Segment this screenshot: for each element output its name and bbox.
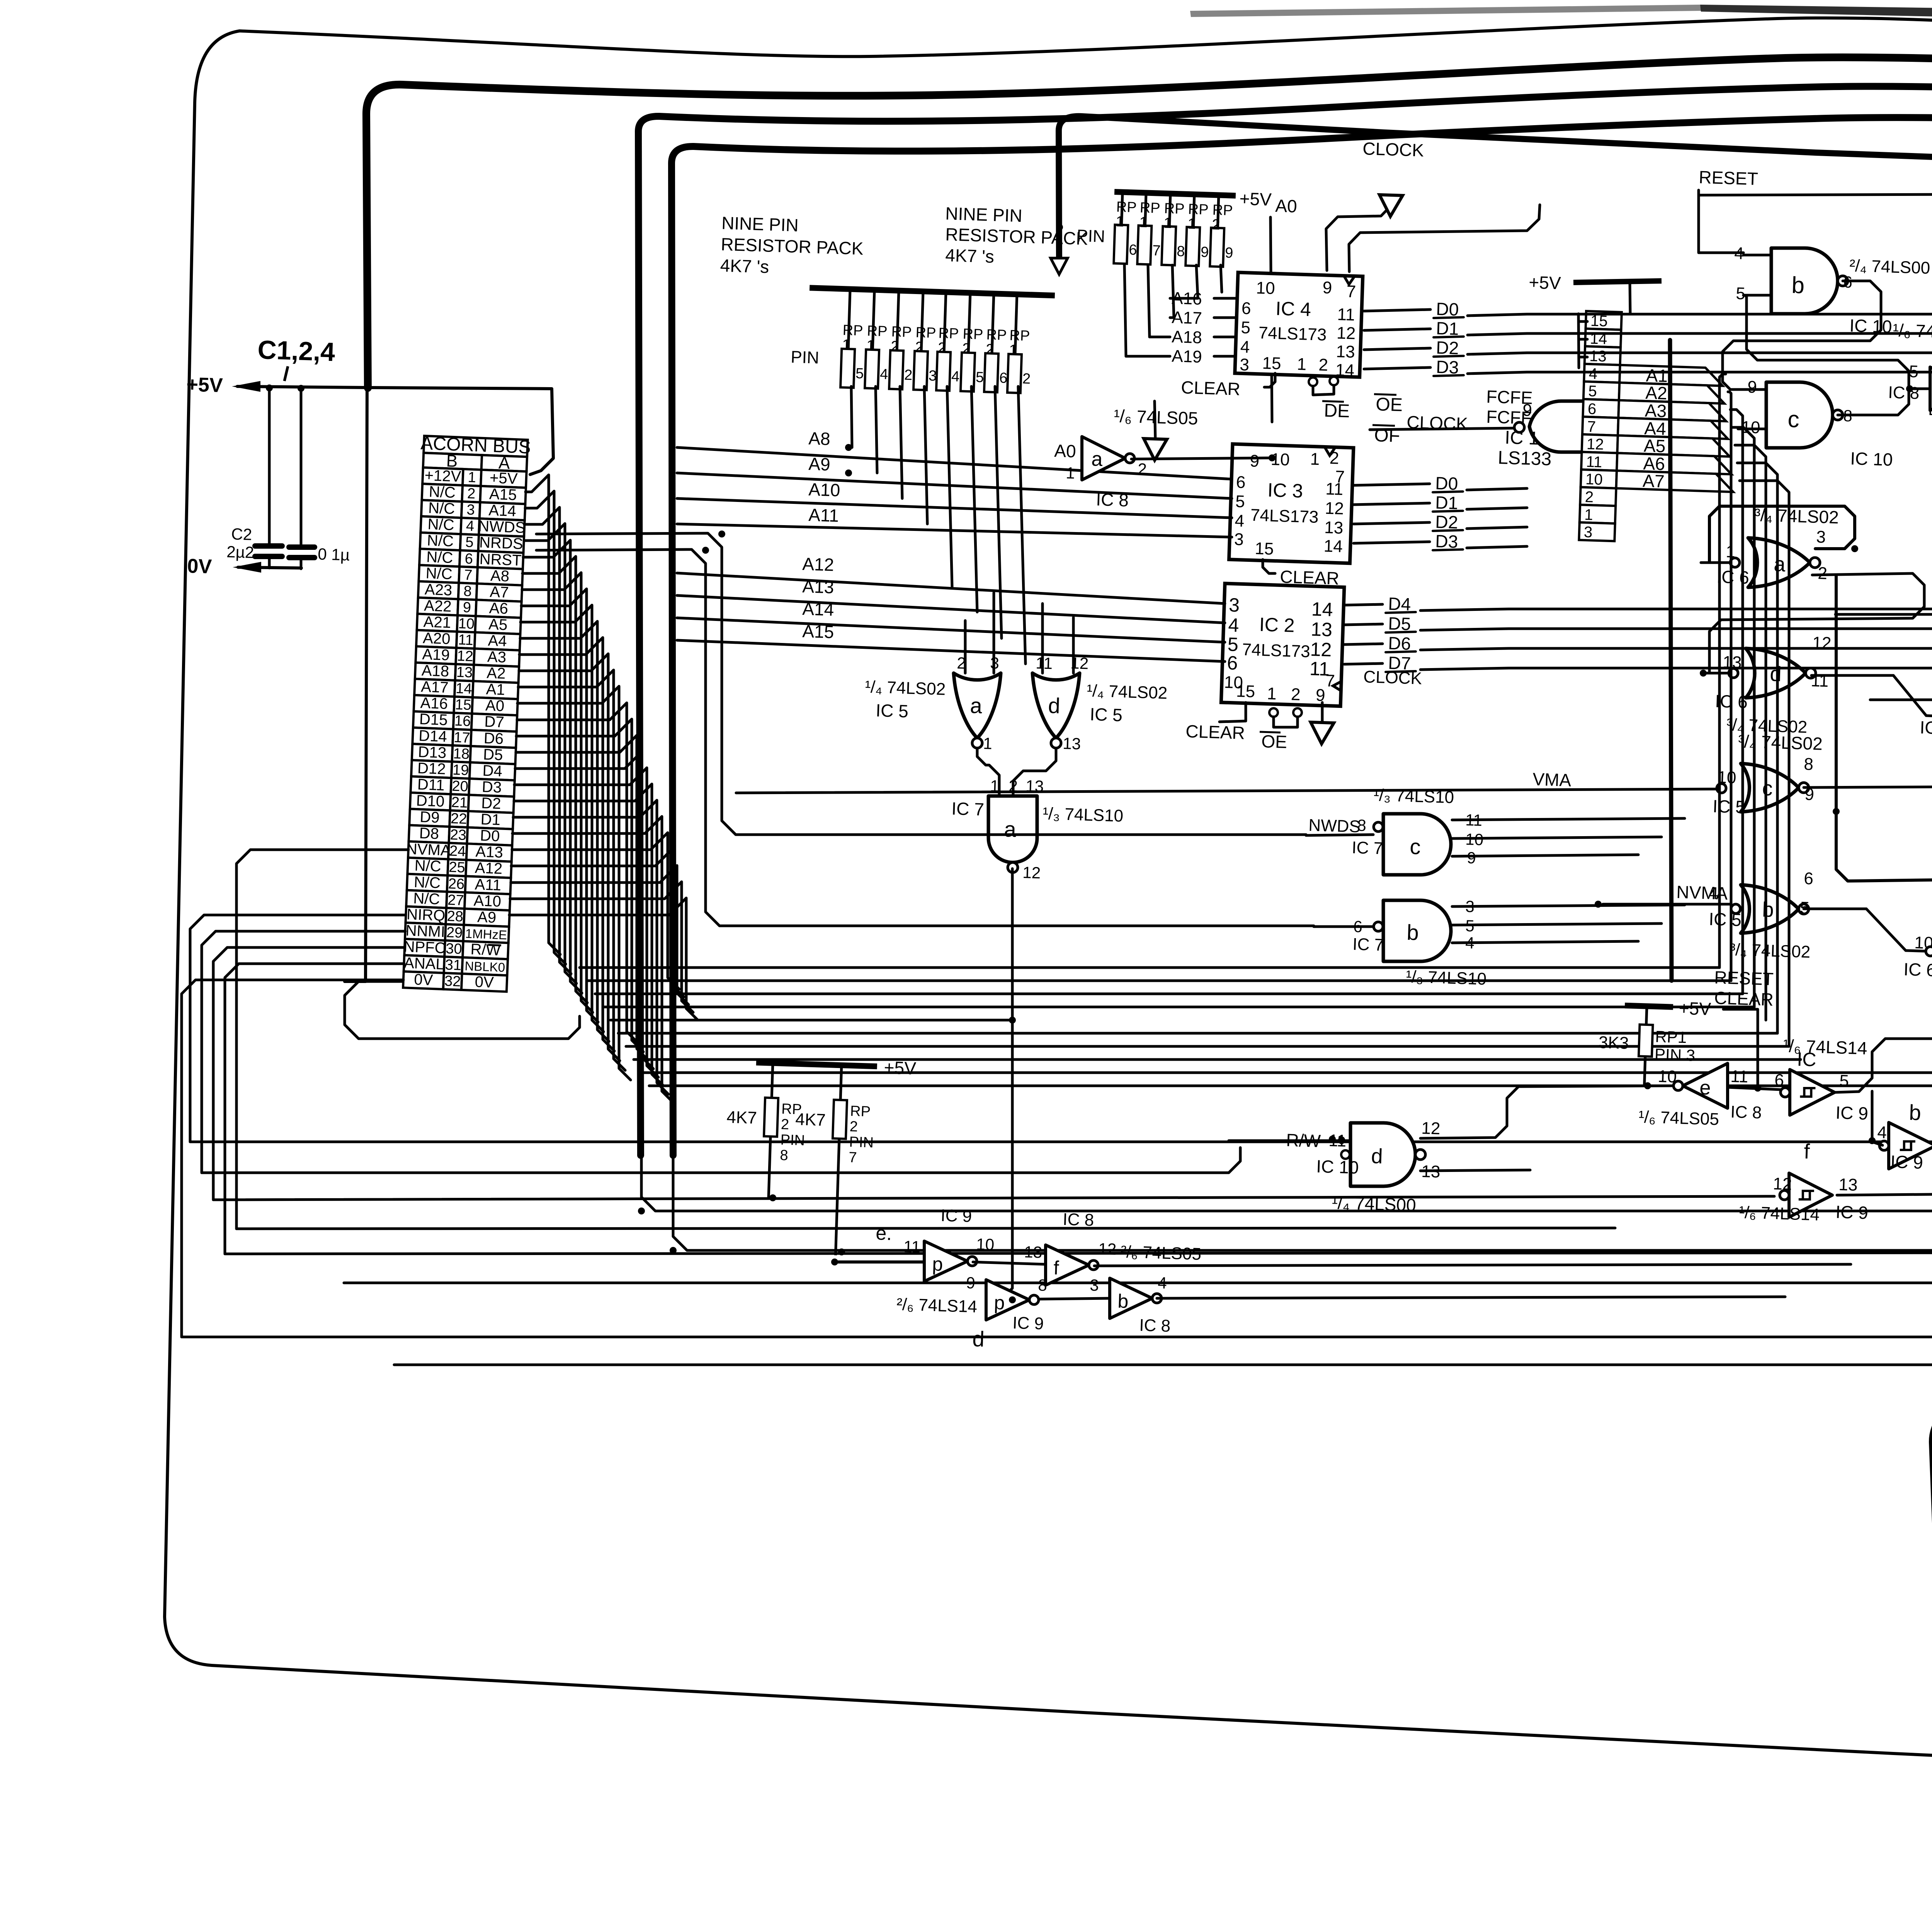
wire VMA lead (736, 789, 1716, 793)
svg-text:8: 8 (1357, 816, 1367, 835)
svg-text:RP: RP (867, 323, 888, 340)
svg-text:1: 1 (1116, 214, 1124, 230)
svg-text:13: 13 (1024, 1243, 1043, 1261)
svg-text:D14: D14 (418, 727, 447, 745)
svg-text:1: 1 (468, 469, 476, 486)
IC U2 74LS173 (IC2) (1221, 583, 1344, 706)
resistor pack RP1/RP2 lower nine pin (716, 213, 1057, 394)
svg-text:RP1: RP1 (1655, 1027, 1687, 1047)
wire 0V row jog (345, 981, 580, 1039)
svg-text:C1,2,4: C1,2,4 (257, 335, 336, 367)
svg-text:d: d (1048, 693, 1061, 718)
svg-text:10: 10 (1585, 471, 1603, 488)
svg-text:D8: D8 (419, 825, 439, 842)
svg-text:0V: 0V (414, 971, 434, 989)
wire b input stub (1872, 1142, 1883, 1145)
svg-text:3: 3 (1583, 524, 1593, 541)
svg-text:IC 5: IC 5 (876, 700, 909, 721)
ground arrow near IC3 (1155, 401, 1155, 439)
wire 0V return vertical (366, 389, 367, 981)
svg-text:IC 7: IC 7 (1352, 935, 1384, 955)
svg-text:¹/₃ 74LS10: ¹/₃ 74LS10 (1406, 967, 1487, 989)
svg-text:RP: RP (1188, 201, 1209, 218)
wire IC4 pin9 gnd (1326, 195, 1391, 270)
svg-text:4: 4 (1235, 511, 1245, 531)
wire B-side exits (236, 850, 408, 1229)
svg-text:OE: OE (1261, 731, 1287, 752)
svg-text:A5: A5 (488, 616, 508, 634)
svg-text:4: 4 (1877, 1123, 1887, 1142)
svg-text:2: 2 (1212, 216, 1220, 233)
svg-text:IC 8: IC 8 (1139, 1316, 1171, 1336)
svg-text:RP: RP (1212, 202, 1233, 219)
svg-text:A14: A14 (802, 599, 834, 620)
svg-text:A8: A8 (490, 567, 510, 585)
svg-text:4: 4 (1240, 337, 1250, 357)
svg-text:6: 6 (1587, 400, 1597, 418)
IC U4 74LS173 (IC4) (1235, 272, 1363, 380)
wire ring2/3 bottoms (641, 1155, 1932, 1211)
svg-text:IC 6: IC 6 (1903, 959, 1932, 980)
svg-text:D1: D1 (480, 811, 501, 828)
svg-text:+5V: +5V (1529, 272, 1561, 293)
svg-text:IC 4: IC 4 (1275, 298, 1311, 320)
svg-text:8: 8 (1038, 1276, 1048, 1294)
IC U3 74LS173 (IC3) (1229, 444, 1354, 563)
svg-text:N/C: N/C (429, 483, 456, 502)
svg-text:7: 7 (1152, 243, 1161, 259)
svg-text:2: 2 (962, 340, 971, 357)
svg-text:2: 2 (1329, 449, 1339, 468)
svg-text:A1: A1 (486, 681, 505, 699)
svg-text:A12: A12 (802, 554, 834, 575)
svg-text:A12: A12 (474, 859, 503, 878)
svg-text:D15: D15 (419, 711, 448, 729)
svg-text:IC 8: IC 8 (1096, 489, 1129, 510)
svg-text:PIN: PIN (849, 1134, 874, 1151)
svg-text:²/₄ 74LS00: ²/₄ 74LS00 (1849, 256, 1930, 278)
svg-text:11: 11 (903, 1237, 921, 1256)
svg-text:6: 6 (1129, 242, 1137, 259)
svg-text:1: 1 (1139, 214, 1148, 231)
svg-text:28: 28 (447, 908, 464, 925)
svg-text:+5V: +5V (884, 1057, 917, 1078)
svg-text:12: 12 (1586, 435, 1604, 453)
svg-text:2: 2 (904, 367, 913, 384)
wire IC4 clock net (1349, 205, 1540, 272)
svg-text:IC 8: IC 8 (1730, 1102, 1762, 1122)
svg-text:VMA: VMA (1532, 769, 1572, 790)
svg-text:IC 8: IC 8 (1063, 1210, 1094, 1230)
svg-text:4K7: 4K7 (726, 1108, 757, 1128)
svg-text:CLOCK: CLOCK (1362, 138, 1424, 160)
svg-text:b: b (1762, 898, 1774, 922)
svg-text:NRDS: NRDS (479, 534, 524, 553)
svg-text:22: 22 (451, 810, 468, 827)
wire FCFE net (1370, 428, 1514, 430)
wire e output/input (1728, 1087, 1781, 1090)
svg-text:11: 11 (1586, 453, 1602, 471)
svg-text:A11: A11 (474, 876, 502, 894)
svg-text:13: 13 (1838, 1175, 1858, 1195)
svg-text:NIRQ: NIRQ (406, 906, 446, 924)
svg-text:c: c (1787, 406, 1800, 432)
svg-text:6: 6 (1236, 473, 1246, 492)
svg-text:1: 1 (1584, 506, 1594, 524)
svg-text:2: 2 (1818, 564, 1828, 583)
svg-text:7: 7 (1346, 282, 1356, 301)
wire +5V rail (237, 386, 368, 388)
wire web NRDS vertical (536, 549, 1314, 926)
svg-text:9: 9 (1522, 401, 1532, 420)
svg-text:6: 6 (1241, 299, 1251, 318)
svg-text:9: 9 (1747, 378, 1757, 397)
svg-text:6: 6 (999, 370, 1007, 386)
svg-text:NBLK0: NBLK0 (464, 959, 505, 975)
svg-text:¹/₆ 74LS14: ¹/₆ 74LS14 (1739, 1203, 1820, 1225)
wire D bus rails to connector rows (1527, 314, 1932, 829)
svg-text:1: 1 (1297, 355, 1307, 374)
svg-text:4K7 's: 4K7 's (720, 255, 769, 277)
svg-text:5: 5 (1241, 318, 1251, 337)
svg-text:f: f (1053, 1257, 1060, 1279)
svg-text:NPFC: NPFC (403, 938, 446, 957)
NAND U7b 1/3 74LS10 (1383, 900, 1451, 961)
svg-text:13: 13 (1311, 618, 1333, 641)
svg-text:12: 12 (457, 648, 474, 665)
svg-text:c: c (1410, 834, 1421, 859)
wire +5V ring 3 (672, 117, 1932, 1155)
svg-text:³/₄ 74LS02: ³/₄ 74LS02 (1738, 731, 1823, 754)
wire OE jumper IC4 (1309, 378, 1317, 386)
svg-text:A11: A11 (808, 505, 839, 526)
svg-text:IC 8: IC 8 (1888, 383, 1920, 403)
svg-text:IC 9: IC 9 (1012, 1313, 1044, 1333)
wire R/W input (1229, 1139, 1350, 1142)
wire inverter a output (1131, 458, 1272, 459)
svg-text:29: 29 (446, 924, 463, 941)
svg-text:A10: A10 (473, 892, 502, 910)
svg-text:f: f (1804, 1140, 1811, 1163)
svg-text:5: 5 (1588, 383, 1597, 400)
svg-text:C2: C2 (231, 525, 252, 544)
wire +5V ring 1 outermost (366, 57, 1932, 1117)
svg-text:10: 10 (976, 1235, 995, 1253)
svg-text:2: 2 (467, 485, 476, 502)
wire bundle east lower (580, 966, 1719, 969)
svg-text:15: 15 (1255, 539, 1274, 559)
svg-text:N/C: N/C (413, 890, 440, 908)
wire b out east (1157, 1297, 1785, 1298)
wire trunk vertical x4324 (1670, 340, 1672, 981)
inverter U8e 1/6 74LS05 (1683, 1063, 1728, 1108)
svg-text:2: 2 (1318, 355, 1328, 375)
svg-text:12: 12 (1421, 1119, 1440, 1138)
svg-text:A0: A0 (1054, 440, 1077, 461)
svg-text:N/C: N/C (425, 565, 453, 583)
svg-text:15: 15 (1262, 354, 1281, 373)
svg-text:25: 25 (449, 859, 466, 876)
svg-text:A10: A10 (808, 479, 840, 500)
svg-text:1: 1 (842, 337, 850, 354)
svg-text:12: 12 (1325, 499, 1344, 519)
wire pack legs (851, 386, 852, 447)
svg-text:¹/₆ 74LS05: ¹/₆ 74LS05 (1638, 1107, 1719, 1129)
svg-text:+12V: +12V (424, 467, 461, 485)
wire e-f link (973, 1262, 1046, 1264)
svg-text:13: 13 (1063, 734, 1081, 753)
svg-text:D4: D4 (482, 762, 503, 780)
svg-text:10: 10 (1658, 1067, 1677, 1087)
svg-text:4: 4 (1158, 1274, 1167, 1292)
title block frame (1930, 1381, 1932, 1812)
svg-text:N/C: N/C (413, 874, 441, 892)
svg-text:IC 9: IC 9 (1835, 1102, 1869, 1124)
wire U10d outputs (1420, 1086, 1673, 1138)
svg-text:D10: D10 (416, 792, 445, 810)
wire web A-lines up to IC1 labels (1719, 374, 1726, 968)
svg-text:A18: A18 (421, 662, 449, 680)
svg-text:14: 14 (456, 680, 473, 697)
svg-text:16: 16 (454, 713, 471, 730)
svg-text:+5V: +5V (186, 373, 223, 397)
svg-text:RP: RP (986, 327, 1007, 344)
svg-text:PIN: PIN (1077, 226, 1105, 246)
svg-text:2: 2 (1022, 371, 1031, 387)
inverter U8b (1110, 1278, 1152, 1318)
svg-text:12: 12 (1310, 638, 1332, 661)
svg-text:¹/₆ 74LS05: ¹/₆ 74LS05 (1114, 406, 1199, 429)
svg-text:¹/₄ 74LS02: ¹/₄ 74LS02 (865, 677, 946, 699)
svg-text:+5V: +5V (1679, 998, 1711, 1019)
wire RESET net (1699, 190, 1743, 253)
svg-text:ANAL: ANAL (404, 954, 445, 973)
svg-text:IC 9: IC 9 (940, 1206, 972, 1226)
svg-text:13: 13 (1324, 518, 1344, 538)
svg-text:19: 19 (452, 762, 469, 779)
svg-text:1: 1 (866, 338, 875, 354)
svg-text:12: 12 (1022, 863, 1041, 882)
svg-text:a: a (1774, 553, 1786, 576)
svg-text:NRST: NRST (479, 551, 522, 569)
svg-text:RP: RP (1009, 327, 1030, 344)
svg-text:13: 13 (1589, 347, 1607, 365)
wire NWDS lead (1306, 835, 1373, 835)
svg-text:9: 9 (966, 1274, 976, 1292)
svg-text:30: 30 (446, 940, 463, 957)
svg-text:NVMA: NVMA (406, 840, 451, 859)
svg-text:IC 5: IC 5 (1713, 796, 1746, 817)
svg-text:10: 10 (1256, 279, 1275, 298)
wire NOR outputs to NAND a (977, 748, 999, 795)
svg-text:A4: A4 (488, 632, 507, 650)
svg-text:b: b (1909, 1100, 1922, 1125)
svg-text:4K7 's: 4K7 's (945, 245, 995, 267)
wire f output to bus (1837, 1142, 1932, 1195)
svg-text:LS133: LS133 (1498, 447, 1552, 469)
svg-text:RESET: RESET (1699, 167, 1759, 189)
svg-text:7: 7 (1587, 418, 1596, 435)
svg-text:¹/₃ 74LS10: ¹/₃ 74LS10 (1043, 804, 1124, 826)
wire NVMA lead (1603, 903, 1730, 906)
svg-text:24: 24 (449, 843, 466, 860)
svg-text:A16: A16 (1172, 289, 1202, 308)
svg-text:IC 9: IC 9 (1835, 1202, 1869, 1223)
wire IC2 pin9 gnd (1321, 702, 1324, 723)
wire IC4 D0-D3 (1364, 310, 1430, 311)
svg-text:D9: D9 (420, 808, 440, 826)
svg-text:IC 6: IC 6 (1920, 717, 1932, 738)
svg-text:1: 1 (983, 734, 993, 753)
svg-text:IC 7: IC 7 (1352, 838, 1383, 858)
svg-text:A6: A6 (489, 600, 509, 617)
svg-text:1: 1 (1009, 342, 1017, 359)
svg-text:IC 5: IC 5 (1709, 909, 1742, 930)
svg-text:IC 10: IC 10 (1850, 448, 1893, 469)
svg-text:13: 13 (456, 664, 473, 681)
svg-text:4: 4 (951, 368, 959, 385)
svg-text:A0: A0 (485, 697, 505, 715)
svg-text:9: 9 (1201, 244, 1209, 261)
svg-text:IC 10: IC 10 (1316, 1156, 1359, 1177)
svg-text:6: 6 (1227, 652, 1238, 674)
svg-text:N/C: N/C (426, 548, 454, 566)
svg-text:D0: D0 (480, 827, 500, 845)
svg-text:A22: A22 (424, 597, 452, 615)
svg-text:b: b (1406, 920, 1419, 945)
wire U5b out to U6c (1804, 908, 1866, 910)
svg-text:5: 5 (1235, 492, 1245, 511)
svg-text:A20: A20 (422, 629, 451, 648)
svg-text:12: 12 (1773, 1174, 1792, 1194)
svg-text:11: 11 (1325, 480, 1344, 499)
svg-text:IC: IC (1797, 1048, 1817, 1071)
wire A0 drop (1270, 217, 1272, 422)
svg-text:9: 9 (1322, 278, 1332, 298)
svg-text:IC 7: IC 7 (951, 798, 985, 820)
NAND U10b 2/4 74LS00 (1771, 248, 1838, 314)
svg-text:26: 26 (448, 876, 465, 893)
svg-text:2: 2 (1585, 488, 1594, 506)
wire NAND a output south (988, 869, 1012, 1300)
svg-text:2: 2 (986, 341, 994, 358)
wire c out Z to upper right (1835, 953, 1932, 1092)
svg-text:6: 6 (1774, 1071, 1784, 1090)
svg-text:74LS173: 74LS173 (1250, 506, 1319, 527)
svg-text:2: 2 (915, 339, 923, 356)
svg-text:12: 12 (1812, 633, 1832, 653)
svg-text:0V: 0V (474, 973, 494, 991)
svg-text:R/W: R/W (470, 941, 501, 959)
svg-text:13: 13 (1336, 342, 1355, 362)
svg-text:CLEAR: CLEAR (1181, 377, 1241, 399)
svg-text:A13: A13 (802, 576, 834, 597)
svg-text:RP: RP (850, 1103, 871, 1120)
svg-text:RP: RP (891, 324, 912, 341)
wire knot verticals right of IC6 (1709, 506, 1855, 561)
svg-text:5: 5 (1736, 284, 1746, 303)
svg-text:a: a (1004, 817, 1017, 842)
svg-text:3: 3 (1240, 355, 1250, 374)
svg-text:NINE PIN: NINE PIN (721, 213, 799, 235)
svg-text:1: 1 (1310, 449, 1320, 469)
svg-text:2: 2 (1291, 685, 1301, 704)
svg-text:31: 31 (445, 957, 462, 974)
svg-text:NWDS: NWDS (478, 518, 526, 537)
svg-text:5: 5 (465, 534, 474, 551)
svg-text:A3: A3 (487, 648, 507, 666)
wire IC2 D4-D7 (1344, 604, 1383, 605)
svg-text:IC 3: IC 3 (1267, 479, 1303, 502)
resistor RP2 4K7 pullups (723, 1053, 917, 1258)
svg-text:+5V: +5V (489, 469, 518, 488)
NAND U10c 2/4 74LS00 (1766, 382, 1833, 448)
svg-text:N/C: N/C (428, 500, 456, 518)
svg-text:N/C: N/C (414, 857, 442, 875)
wire fanout A-side rows to spine (526, 475, 560, 954)
svg-text:p: p (994, 1292, 1005, 1314)
svg-text:11: 11 (458, 632, 474, 648)
svg-text:A15: A15 (802, 621, 834, 642)
wire f out east (1094, 1264, 1851, 1266)
svg-text:3K3: 3K3 (1598, 1033, 1629, 1053)
svg-text:PIN 3: PIN 3 (1654, 1045, 1695, 1065)
svg-text:21: 21 (451, 794, 468, 811)
svg-text:5: 5 (1839, 1071, 1849, 1091)
wire +5V ring 4 to resistor packs (1059, 116, 1932, 835)
svg-text:12: 12 (1336, 323, 1355, 343)
svg-text:NINE PIN: NINE PIN (945, 203, 1023, 226)
svg-text:RP: RP (1139, 200, 1160, 217)
svg-text:15: 15 (455, 697, 472, 714)
svg-text:PIN: PIN (791, 347, 820, 367)
wire web NWDS vertical (536, 533, 1306, 835)
svg-text:¹/₆ 74LS05: ¹/₆ 74LS05 (1893, 320, 1932, 343)
svg-text:N/C: N/C (427, 516, 455, 534)
svg-text:1: 1 (1187, 216, 1196, 233)
svg-text:12: 12 (1098, 1240, 1117, 1258)
svg-text:A19: A19 (422, 646, 450, 664)
wire ring4 arrow (1051, 258, 1068, 274)
svg-text:1MHzE: 1MHzE (465, 926, 507, 942)
svg-text:c: c (1762, 777, 1773, 800)
svg-text:0V: 0V (187, 555, 213, 578)
svg-text:N/C: N/C (427, 532, 454, 550)
svg-text:¹/₆ 74LS14: ¹/₆ 74LS14 (1783, 1036, 1868, 1058)
svg-text:2: 2 (891, 338, 899, 355)
NAND U10d 1/4 74LS00 (1350, 1123, 1415, 1186)
svg-text:RP: RP (915, 325, 936, 342)
wire latch cross-couple (1723, 281, 1881, 389)
svg-text:14: 14 (1335, 361, 1354, 380)
resistor RP1 3K3 pin3 (1597, 995, 1711, 1087)
wire U6a out loop to U6d (1709, 573, 1924, 672)
svg-text:8: 8 (1177, 243, 1185, 260)
svg-text:CLEAR: CLEAR (1185, 721, 1245, 743)
svg-text:NNMI: NNMI (405, 922, 446, 940)
svg-text:14: 14 (1323, 537, 1343, 556)
svg-text:32: 32 (444, 973, 461, 990)
wire latch out to inverter (1909, 388, 1930, 390)
svg-text:PIN: PIN (780, 1132, 805, 1149)
svg-text:A15: A15 (489, 486, 517, 504)
wire reset-clear frame (1723, 1009, 1758, 1089)
svg-text:4K7: 4K7 (795, 1110, 826, 1129)
svg-text:d: d (972, 1327, 985, 1351)
svg-text:A17: A17 (1172, 308, 1202, 328)
resistor pack RP1/RP2 upper nine pin (1076, 184, 1272, 269)
svg-text:3: 3 (1816, 527, 1826, 547)
